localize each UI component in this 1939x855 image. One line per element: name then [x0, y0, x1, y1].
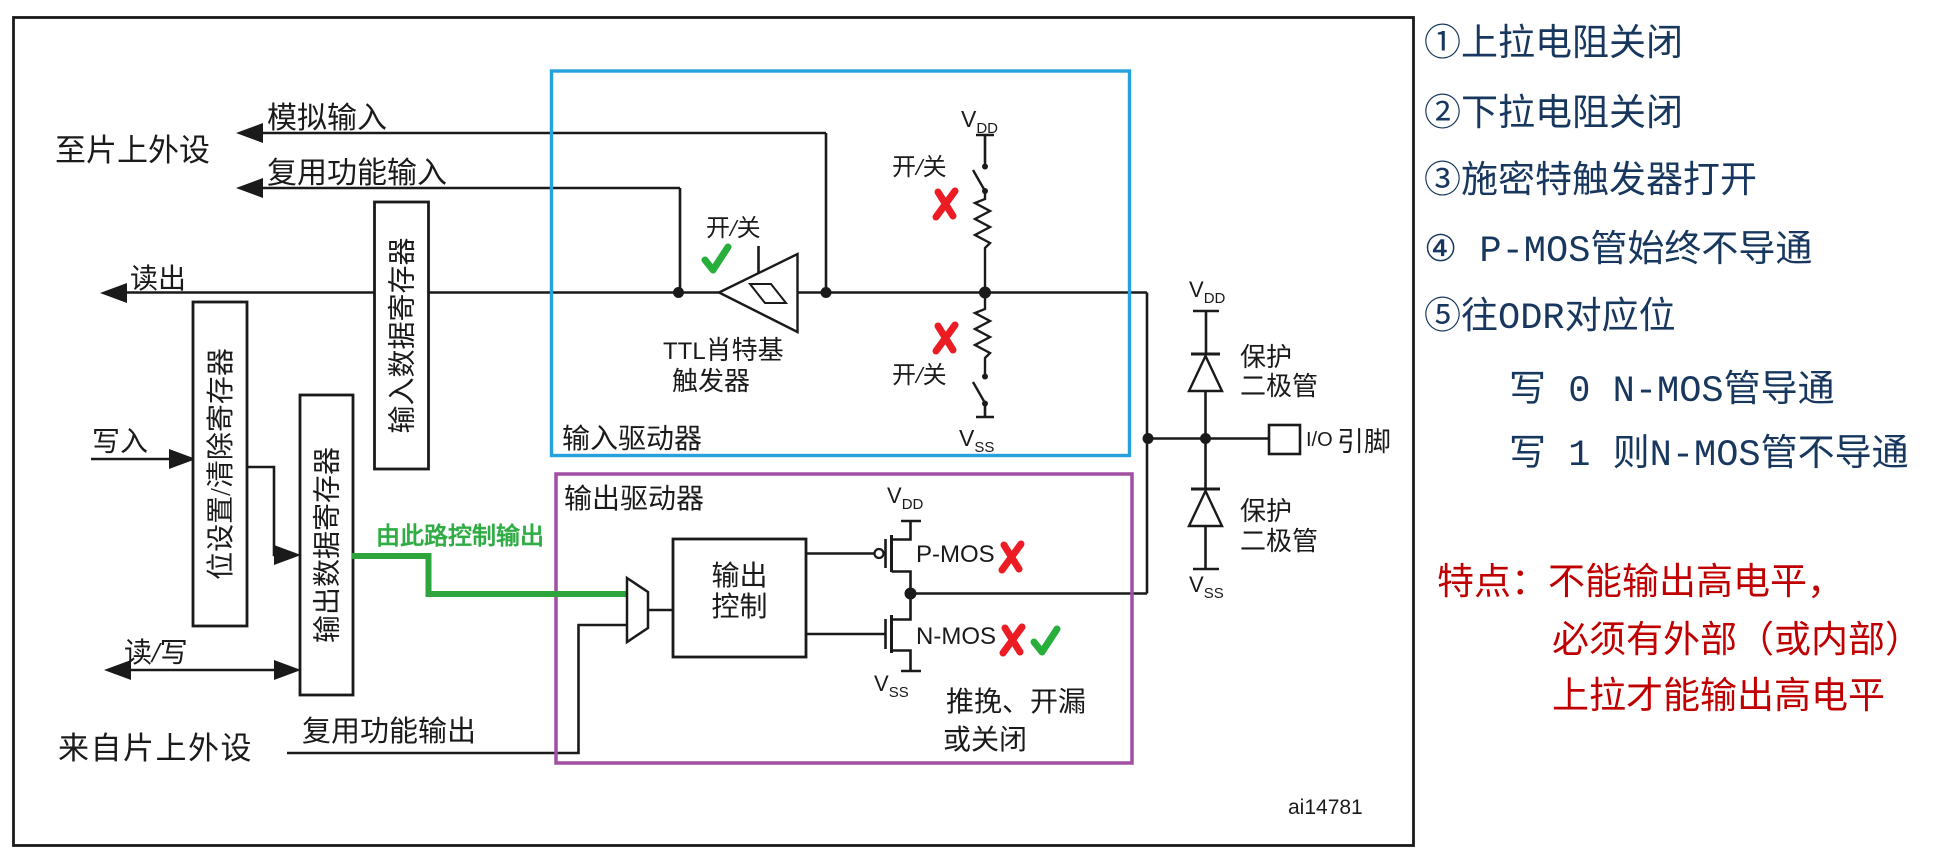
green check schmitt: [705, 247, 728, 270]
svg-text:开/关: 开/关: [706, 215, 761, 242]
svg-text:至片上外设: 至片上外设: [55, 133, 210, 168]
wire mux to output control: [648, 609, 673, 612]
svg-text:开/关: 开/关: [892, 362, 947, 389]
transistor Q1 P-MOS: [875, 549, 884, 558]
node drain junction: [905, 588, 917, 600]
wire analog vertical drop: [825, 133, 828, 293]
wire AF input vertical drop: [679, 188, 682, 293]
register box BSRR 位设置/清除寄存器: [193, 302, 247, 626]
svg-text:由此路控制输出: 由此路控制输出: [376, 522, 544, 550]
svg-text:输入数据寄存器: 输入数据寄存器: [387, 237, 419, 433]
arrowhead analog input: [236, 123, 263, 143]
wire output drain horizontal: [911, 592, 1147, 595]
svg-text:上拉才能输出高电平: 上拉才能输出高电平: [1552, 675, 1885, 720]
svg-text:I/O: I/O: [1306, 429, 1333, 451]
arrowhead read/write right: [274, 660, 301, 680]
svg-text:复用功能输入: 复用功能输入: [267, 157, 447, 190]
svg-text:读/写: 读/写: [124, 637, 188, 669]
mux trapezoid: [627, 578, 648, 642]
node junction AF-in: [673, 287, 684, 298]
arrowhead read out: [100, 283, 127, 303]
svg-text:复用功能输出: 复用功能输出: [302, 715, 476, 748]
svg-text:控制: 控制: [711, 591, 767, 623]
wire schmitt on/off stub: [757, 246, 760, 278]
svg-text:P-MOS: P-MOS: [916, 541, 995, 568]
protection diode D1: [1191, 353, 1220, 356]
outer frame: [14, 18, 1414, 846]
resistor R pull-up: [975, 191, 990, 292]
red X P-MOS: [1002, 544, 1021, 570]
wire to I/O pad: [1148, 437, 1269, 440]
svg-text:或关闭: 或关闭: [943, 724, 1027, 756]
I/O pad square: [1269, 425, 1300, 454]
arrowhead read/write left: [104, 660, 131, 680]
N-MOS VSS bar: [901, 670, 921, 673]
arrowhead alternate function input: [236, 178, 263, 198]
svg-text:④ P-MOS管始终不导通: ④ P-MOS管始终不导通: [1424, 228, 1812, 273]
wire alternate function output: [287, 625, 627, 753]
wire BSRR to ODR branch: [247, 467, 280, 555]
pull-down switch SW2: [982, 374, 988, 380]
svg-text:⑤往ODR对应位: ⑤往ODR对应位: [1424, 295, 1676, 340]
svg-text:开/关: 开/关: [892, 154, 947, 181]
green check N-MOS: [1034, 629, 1057, 652]
protection diode D2: [1204, 439, 1207, 490]
svg-text:特点：不能输出高电平，: 特点：不能输出高电平，: [1437, 561, 1844, 606]
diode VDD bar: [1193, 311, 1219, 354]
svg-text:二极管: 二极管: [1240, 372, 1318, 401]
wire right vertical I/O net: [1146, 293, 1149, 594]
svg-text:模拟输入: 模拟输入: [267, 102, 387, 135]
svg-text:来自片上外设: 来自片上外设: [58, 731, 253, 766]
svg-text:位设置/清除寄存器: 位设置/清除寄存器: [205, 348, 237, 580]
svg-text:保护: 保护: [1240, 343, 1292, 372]
red X N-MOS: [1003, 627, 1022, 653]
svg-text:①上拉电阻关闭: ①上拉电阻关闭: [1424, 22, 1683, 67]
pull-up switch SW1: [982, 164, 988, 170]
svg-text:必须有外部（或内部）: 必须有外部（或内部）: [1552, 619, 1922, 664]
svg-text:二极管: 二极管: [1240, 527, 1318, 556]
wire read/write: [129, 669, 277, 672]
svg-text:输入驱动器: 输入驱动器: [562, 423, 702, 455]
schmitt trigger U1 triangle: [719, 254, 798, 332]
pull-down VSS bar: [976, 404, 994, 418]
wire P-MOS gate: [806, 552, 874, 555]
svg-text:N-MOS: N-MOS: [916, 623, 996, 650]
svg-text:输出数据寄存器: 输出数据寄存器: [312, 447, 344, 643]
output control box: [673, 539, 806, 657]
svg-text:读出: 读出: [130, 263, 186, 295]
svg-text:推挽、开漏: 推挽、开漏: [946, 686, 1086, 718]
svg-text:ai14781: ai14781: [1288, 796, 1363, 819]
svg-text:写入: 写入: [92, 427, 148, 458]
red X pull-down: [936, 325, 955, 351]
red X pull-up: [936, 191, 955, 217]
svg-text:写 1 则N-MOS管不导通: 写 1 则N-MOS管不导通: [1509, 432, 1909, 477]
purple box output driver: [556, 474, 1132, 763]
green control wire: [352, 556, 626, 594]
node junction schmitt output: [821, 287, 832, 298]
P-MOS VDD bar: [901, 520, 921, 523]
svg-text:写 0 N-MOS管导通: 写 0 N-MOS管导通: [1509, 368, 1835, 413]
svg-text:输出驱动器: 输出驱动器: [564, 483, 704, 515]
svg-text:TTL肖特基: TTL肖特基: [663, 336, 784, 365]
schmitt hysteresis symbol: [750, 284, 786, 303]
arrowhead branch to ODR: [274, 545, 301, 565]
wire alternate function input horizontal: [261, 187, 680, 190]
node junction diodes: [1200, 433, 1211, 444]
svg-text:触发器: 触发器: [672, 367, 750, 396]
svg-text:③施密特触发器打开: ③施密特触发器打开: [1424, 159, 1757, 204]
svg-text:保护: 保护: [1240, 497, 1292, 526]
pull-up VDD bar: [976, 135, 994, 166]
arrowhead write in: [169, 449, 196, 469]
register box IDR 输入数据寄存器: [375, 202, 429, 469]
wire main input net: [125, 291, 1147, 294]
node junction resistor mid: [979, 287, 991, 299]
resistor R pull-down: [975, 293, 990, 376]
node junction I/O left: [1143, 433, 1154, 444]
wire N-MOS gate: [806, 633, 886, 636]
wire write-in: [91, 458, 178, 461]
svg-text:②下拉电阻关闭: ②下拉电阻关闭: [1424, 92, 1683, 137]
blue box input driver: [552, 71, 1130, 456]
svg-text:输出: 输出: [711, 560, 767, 592]
svg-text:引脚: 引脚: [1337, 427, 1391, 457]
wire analog input horizontal: [261, 132, 826, 135]
register box ODR 输出数据寄存器: [300, 395, 353, 695]
transistor Q2 N-MOS: [884, 619, 887, 649]
